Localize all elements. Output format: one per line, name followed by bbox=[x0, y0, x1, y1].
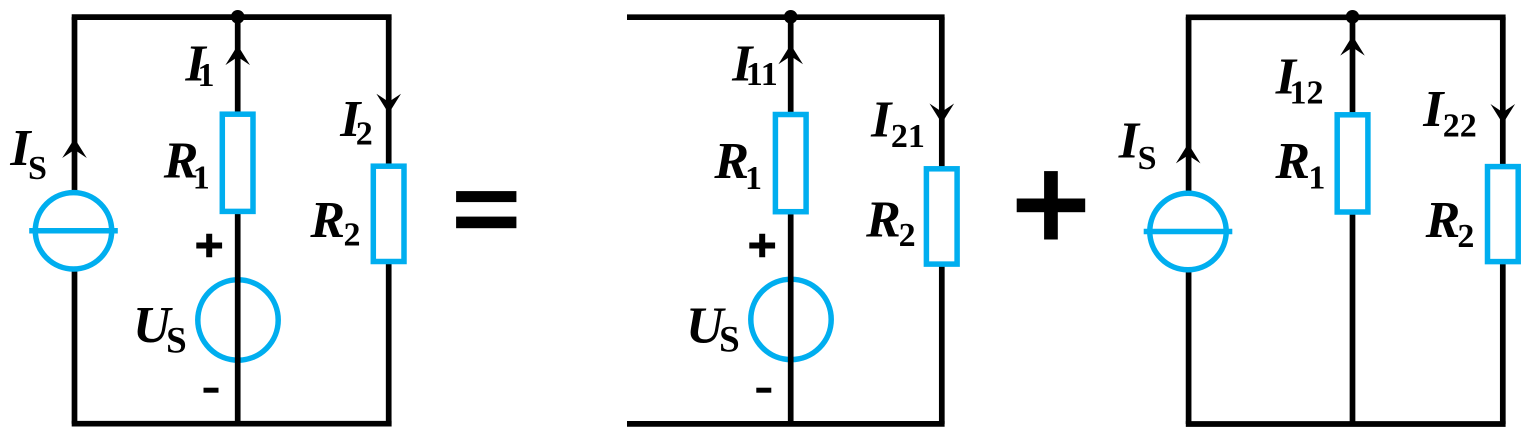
svg-text:R: R bbox=[1425, 192, 1461, 249]
svg-text:2: 2 bbox=[344, 216, 361, 253]
label IS (circuit 1) bbox=[9, 120, 47, 187]
polarity plus sign of US (circuit 2) bbox=[749, 234, 775, 258]
svg-text:21: 21 bbox=[891, 118, 925, 155]
wire: circuit 1 middle branch (R1 / US branch) bbox=[235, 17, 241, 424]
label R1 (circuit 3) bbox=[1274, 133, 1325, 196]
arrowhead: IS current direction (up), circuit 1 bbox=[62, 138, 87, 158]
svg-text:S: S bbox=[719, 319, 740, 360]
label I11 (circuit 2) bbox=[731, 35, 778, 93]
svg-text:22: 22 bbox=[1443, 107, 1477, 144]
current source IS (circuit 1) bbox=[29, 193, 118, 269]
label I21 (circuit 2) bbox=[870, 92, 925, 155]
svg-text:R: R bbox=[309, 192, 345, 249]
node: junction dot, circuit 2 top bbox=[784, 10, 798, 24]
svg-text:1: 1 bbox=[193, 160, 210, 197]
svg-text:S: S bbox=[28, 150, 47, 187]
svg-text:11: 11 bbox=[746, 56, 778, 93]
arrowhead: current I11 direction (up), circuit 2 bbox=[778, 45, 803, 65]
label IS (circuit 3) bbox=[1118, 113, 1157, 177]
svg-text:R: R bbox=[1274, 133, 1310, 190]
arrowhead: current I22 direction (down), circuit 3 bbox=[1491, 104, 1516, 124]
svg-text:12: 12 bbox=[1290, 74, 1324, 111]
voltage source US (circuit 2) bbox=[751, 279, 831, 359]
polarity minus sign of US (circuit 2) bbox=[756, 388, 771, 393]
label I22 (circuit 3) bbox=[1422, 81, 1477, 144]
wire: circuit 2 middle branch (R1 / US branch) bbox=[788, 17, 794, 424]
wire: circuit 1 left branch (current-source branch) bbox=[72, 17, 78, 424]
arrowhead: current I1 direction (up), circuit 1 bbox=[225, 45, 250, 65]
svg-text:2: 2 bbox=[1457, 218, 1474, 255]
svg-text:S: S bbox=[1138, 140, 1157, 177]
label R1 (circuit 1) bbox=[163, 132, 210, 196]
arrowhead: current I2 direction (down), circuit 1 bbox=[376, 94, 401, 114]
wire: circuit 3 bottom conductor bbox=[1186, 421, 1506, 427]
wire: circuit 2 right branch (R2 branch) bbox=[939, 17, 945, 424]
resistor R1 (circuit 2) bbox=[775, 115, 806, 212]
svg-text:I: I bbox=[870, 92, 893, 149]
svg-text:2: 2 bbox=[356, 116, 373, 153]
label R2 (circuit 2) bbox=[865, 191, 916, 254]
voltage source US (circuit 1) bbox=[198, 280, 278, 360]
resistor R2 (circuit 1) bbox=[373, 166, 404, 261]
resistor R2 (circuit 2) bbox=[926, 169, 957, 264]
wire: circuit 3 left branch (current-source branch) bbox=[1186, 17, 1192, 424]
svg-text:1: 1 bbox=[745, 160, 762, 197]
node: junction dot, circuit 3 top bbox=[1346, 10, 1360, 24]
wire: circuit 1 right branch (R2 branch) bbox=[386, 17, 392, 424]
label US (circuit 1) bbox=[133, 297, 187, 362]
svg-text:R: R bbox=[865, 191, 901, 248]
wire: circuit 3 middle branch (R1 branch) bbox=[1350, 17, 1356, 424]
wire: circuit 1 top conductor bbox=[72, 14, 392, 20]
wire: circuit 2 bottom conductor (open left end) bbox=[627, 421, 945, 427]
polarity minus sign of US (circuit 1) bbox=[204, 388, 219, 393]
svg-text:R: R bbox=[713, 133, 749, 190]
current source IS (circuit 3) bbox=[1144, 193, 1233, 269]
node: junction dot, circuit 1 top bbox=[231, 10, 245, 24]
label R1 (circuit 2) bbox=[713, 133, 762, 197]
arrowhead: IS current direction (up), circuit 3 bbox=[1176, 144, 1201, 164]
svg-text:1: 1 bbox=[198, 57, 215, 94]
label I12 (circuit 3) bbox=[1275, 49, 1324, 112]
label R2 (circuit 1) bbox=[309, 192, 360, 253]
resistor R1 (circuit 3) bbox=[1337, 115, 1368, 212]
label I1 (circuit 1) bbox=[185, 36, 215, 94]
svg-text:1: 1 bbox=[1308, 160, 1325, 197]
arrowhead: current I12 direction (up), circuit 3 bbox=[1340, 36, 1365, 56]
plus sign between circuit 2 and circuit 3 bbox=[1017, 171, 1085, 239]
equals sign between circuit 1 and circuit 2 bbox=[456, 191, 516, 228]
label R2 (circuit 3) bbox=[1425, 192, 1475, 255]
arrowhead: current I21 direction (down), circuit 2 bbox=[930, 104, 955, 124]
wire: circuit 2 top conductor (open left end) bbox=[627, 14, 945, 20]
svg-text:S: S bbox=[166, 321, 187, 362]
wire: circuit 1 bottom conductor bbox=[72, 421, 392, 427]
wire: circuit 3 right branch (R2 branch) bbox=[1500, 17, 1506, 424]
resistor R2 (circuit 3) bbox=[1488, 167, 1519, 262]
svg-text:2: 2 bbox=[899, 217, 916, 254]
label I2 (circuit 1) bbox=[339, 91, 372, 152]
resistor R1 (circuit 1) bbox=[222, 114, 253, 211]
wire: circuit 3 top conductor bbox=[1186, 14, 1506, 20]
label US (circuit 2) bbox=[686, 298, 740, 361]
polarity plus sign of US (circuit 1) bbox=[196, 234, 222, 258]
